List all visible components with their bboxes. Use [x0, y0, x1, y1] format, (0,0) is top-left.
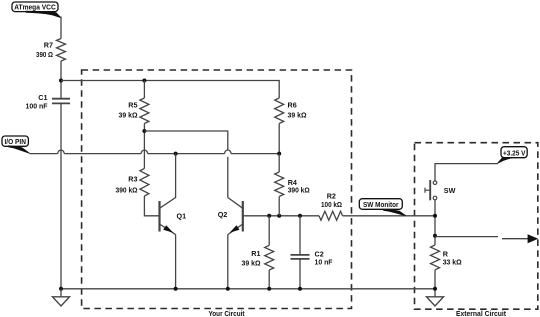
node R4 bottom: [277, 214, 281, 218]
wire hop over Q2 collector column: [225, 150, 231, 154]
svg-text:R5: R5: [128, 101, 137, 110]
node R1 top: [267, 214, 271, 218]
wire R7 to C1: [60, 61, 62, 98]
node SW monitor junction: [433, 214, 437, 218]
resistor R: [431, 245, 463, 270]
node rail left: [59, 287, 63, 291]
node R5 top: [142, 79, 146, 83]
svg-text:I/O PIN: I/O PIN: [4, 139, 26, 146]
flag ATmega VCC: [12, 2, 61, 18]
svg-text:R4: R4: [288, 178, 297, 187]
wire ground rail: [61, 288, 435, 290]
capacitor C2: [291, 216, 334, 289]
node output junction: [433, 234, 437, 238]
wire R5 bottom to Q2 collector: [144, 131, 227, 198]
svg-text:39 kΩ: 39 kΩ: [242, 261, 261, 268]
svg-text:R2: R2: [327, 192, 336, 201]
node Q2 emitter rail: [226, 287, 230, 291]
svg-text:R7: R7: [44, 40, 53, 49]
svg-text:C1: C1: [38, 93, 47, 102]
wire output arrow: [435, 234, 538, 243]
flag SW Monitor: [359, 199, 406, 216]
wire Q1 emitter to rail: [175, 235, 177, 289]
resistor R6: [275, 98, 307, 124]
svg-text:R: R: [443, 250, 449, 259]
resistor R1: [242, 216, 274, 289]
svg-text:390 kΩ: 390 kΩ: [288, 188, 310, 195]
node R6-R4 on I/O line: [277, 152, 281, 156]
svg-text:390 Ω: 390 Ω: [36, 52, 53, 59]
transistor Q2: [218, 198, 243, 235]
capacitor C1: [26, 93, 71, 111]
node C2 top: [298, 214, 302, 218]
wire R to ground: [434, 270, 436, 297]
wire top rail: [61, 81, 279, 99]
svg-text:External Circuit: External Circuit: [456, 309, 507, 317]
wire switch to R: [434, 200, 436, 245]
ground left: [53, 289, 70, 306]
node Q1 collector on I/O line: [174, 152, 178, 156]
svg-text:C2: C2: [315, 250, 324, 259]
node R bottom rail: [433, 287, 437, 291]
svg-text:R6: R6: [288, 101, 297, 110]
node R1 bottom rail: [267, 287, 271, 291]
svg-text:Your Circuit: Your Circuit: [209, 309, 245, 317]
resistor R5: [119, 98, 149, 124]
switch SW: [425, 180, 456, 200]
dashed box External Circuit: [415, 143, 538, 310]
flag I/O PIN: [2, 136, 30, 153]
flag +3.25 V: [498, 147, 528, 164]
svg-text:100 nF: 100 nF: [26, 104, 49, 111]
svg-text:33 kΩ: 33 kΩ: [443, 259, 462, 266]
svg-text:Q2: Q2: [218, 210, 228, 219]
node Q1 emitter rail: [174, 287, 178, 291]
dashed box Your Circuit: [82, 70, 352, 309]
svg-text:39 kΩ: 39 kΩ: [288, 112, 307, 119]
wire VCC to R7: [60, 17, 62, 39]
svg-text:SW Monitor: SW Monitor: [363, 200, 399, 209]
wire C1 to ground rail: [60, 104, 62, 289]
resistor R7: [36, 39, 66, 62]
wire R2 to external circuit: [343, 215, 436, 217]
node top-rail junction: [59, 79, 63, 83]
ground external: [427, 297, 444, 306]
wire hop over VCC column: [58, 150, 64, 154]
wire R3 bottom to Q1 base: [144, 196, 158, 216]
wire +3.25V to switch: [435, 164, 498, 181]
svg-text:R1: R1: [251, 249, 260, 258]
svg-text:100 kΩ: 100 kΩ: [321, 202, 342, 209]
wire I/O line: [30, 153, 280, 155]
node C2 bottom rail: [298, 287, 302, 291]
wire top rail to R5: [143, 81, 145, 99]
svg-text:10 nF: 10 nF: [315, 259, 334, 266]
wire R5 bottom to R3 top: [143, 124, 145, 169]
wire hop over R5 column: [141, 150, 147, 154]
svg-text:ATmega VCC: ATmega VCC: [14, 3, 56, 12]
svg-text:SW: SW: [444, 186, 456, 195]
wire R6 bottom to I/O line: [278, 124, 280, 154]
resistor R3: [116, 169, 149, 197]
wire Q2 emitter to rail: [227, 235, 229, 289]
svg-text:Q1: Q1: [177, 211, 187, 220]
resistor R4: [275, 154, 310, 216]
resistor R2: [319, 192, 343, 221]
svg-text:+3.25 V: +3.25 V: [503, 149, 526, 158]
svg-text:390 kΩ: 390 kΩ: [116, 187, 138, 194]
wire Q2 base net: [243, 215, 319, 217]
transistor Q1: [160, 154, 187, 235]
svg-text:R3: R3: [128, 174, 137, 183]
node R5 bottom junction: [142, 129, 146, 133]
svg-text:39 kΩ: 39 kΩ: [119, 112, 138, 119]
